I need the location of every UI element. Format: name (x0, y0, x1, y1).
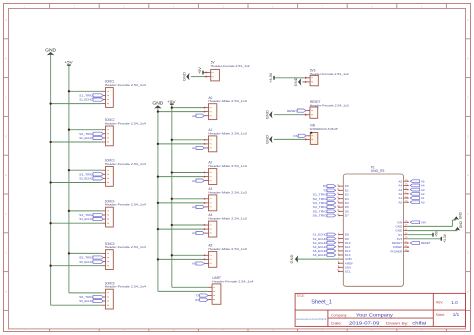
svg-text:S2_ECHO: S2_ECHO (79, 136, 93, 140)
svg-text:eda.easyeda.com/user/chifai.hk: eda.easyeda.com/user/chifai.hk (296, 317, 327, 321)
svg-text:RESET: RESET (287, 109, 297, 113)
svg-text:S1_ECHO: S1_ECHO (79, 98, 93, 102)
svg-text:Date:: Date: (331, 321, 342, 325)
svg-text:REV:: REV: (436, 301, 443, 305)
svg-text:H: H (5, 291, 7, 294)
svg-text:Company:: Company: (331, 313, 348, 317)
svg-text:S6_ECHO: S6_ECHO (79, 299, 93, 303)
svg-text:A3: A3 (192, 205, 196, 209)
svg-text:UNO_R3: UNO_R3 (371, 169, 385, 173)
svg-text:+5V: +5V (65, 60, 73, 65)
svg-text:GND: GND (264, 135, 269, 144)
svg-text:A0: A0 (192, 114, 196, 118)
svg-text:A5: A5 (192, 262, 196, 266)
svg-text:S6_TRIG: S6_TRIG (313, 214, 328, 218)
svg-text:VIN: VIN (293, 134, 298, 138)
svg-text:WJ15EDGVC-5.08-2P: WJ15EDGVC-5.08-2P (310, 127, 338, 131)
svg-text:GND: GND (459, 211, 463, 219)
svg-text:VIN: VIN (421, 221, 426, 225)
svg-text:G: G (5, 252, 7, 255)
svg-text:Header-Male 2.54_1x3: Header-Male 2.54_1x3 (208, 164, 247, 168)
svg-text:A4: A4 (192, 231, 196, 235)
svg-text:Header-Female 2.54_1x4: Header-Female 2.54_1x4 (105, 285, 146, 289)
svg-text:A1: A1 (192, 146, 196, 150)
svg-text:Header-Male 2.54_1x3: Header-Male 2.54_1x3 (208, 247, 247, 251)
svg-text:+5V: +5V (167, 99, 175, 104)
svg-text:RESET: RESET (421, 241, 431, 245)
svg-text:A2: A2 (192, 179, 196, 183)
svg-text:A0: A0 (398, 200, 402, 204)
svg-text:POWER: POWER (390, 249, 402, 253)
svg-text:chifai: chifai (412, 321, 426, 326)
svg-text:D: D (467, 135, 469, 138)
svg-text:C: C (467, 97, 469, 100)
svg-text:2019-07-09: 2019-07-09 (349, 321, 380, 327)
svg-text:+5V: +5V (198, 67, 202, 74)
svg-text:GND: GND (152, 101, 163, 106)
svg-text:Header-Female 2.54_1x2: Header-Female 2.54_1x2 (211, 64, 250, 68)
svg-text:1/1: 1/1 (453, 312, 460, 317)
svg-text:GND: GND (45, 47, 56, 52)
svg-text:S6_ECHO: S6_ECHO (313, 253, 328, 257)
svg-text:D7: D7 (345, 214, 349, 218)
svg-text:Header-Female 2.54_1x4: Header-Female 2.54_1x4 (105, 83, 146, 87)
svg-text:Your Company: Your Company (356, 313, 394, 319)
svg-text:A0: A0 (421, 200, 425, 204)
svg-text:Header-Female 2.54_1x4: Header-Female 2.54_1x4 (105, 245, 146, 249)
svg-text:Sheet_1: Sheet_1 (311, 300, 332, 306)
svg-text:+5V: +5V (434, 230, 438, 237)
svg-text:S3_ECHO: S3_ECHO (79, 177, 93, 181)
svg-text:GND: GND (459, 220, 463, 228)
svg-text:C: C (5, 97, 7, 100)
svg-text:Header-Female 2.54_1x4: Header-Female 2.54_1x4 (105, 203, 146, 207)
svg-text:Header-Female 2.54_1x4: Header-Female 2.54_1x4 (105, 162, 146, 166)
svg-text:RX: RX (195, 298, 199, 302)
svg-text:Header-Male 2.54_1x3: Header-Male 2.54_1x3 (208, 131, 247, 135)
svg-text:+3.3V: +3.3V (443, 233, 447, 243)
svg-text:GND: GND (289, 255, 294, 264)
svg-text:Header-Male 2.54_1x3: Header-Male 2.54_1x3 (208, 190, 247, 194)
svg-text:GND: GND (293, 77, 298, 86)
svg-text:Header-Male 2.54_1x3: Header-Male 2.54_1x3 (208, 217, 247, 221)
svg-text:Drawn By:: Drawn By: (386, 321, 409, 325)
svg-text:GND: GND (181, 72, 186, 81)
svg-text:TITLE:: TITLE: (297, 294, 305, 298)
svg-text:+3.3V: +3.3V (269, 72, 273, 82)
svg-text:SCL: SCL (345, 270, 351, 274)
svg-text:Sheet:: Sheet: (436, 313, 445, 317)
svg-text:S4_ECHO: S4_ECHO (79, 217, 93, 221)
svg-text:Header-Male 2.54_1x3: Header-Male 2.54_1x3 (208, 99, 247, 103)
svg-text:GND: GND (264, 110, 269, 119)
svg-text:D: D (5, 135, 7, 138)
svg-text:H: H (467, 291, 469, 294)
svg-text:Header-Female 2.54_1x4: Header-Female 2.54_1x4 (212, 279, 253, 283)
svg-text:Header-Female 2.54_1x4: Header-Female 2.54_1x4 (105, 122, 146, 126)
svg-text:G: G (467, 252, 469, 255)
svg-text:S5_ECHO: S5_ECHO (79, 260, 93, 264)
svg-text:1.0: 1.0 (451, 300, 458, 305)
